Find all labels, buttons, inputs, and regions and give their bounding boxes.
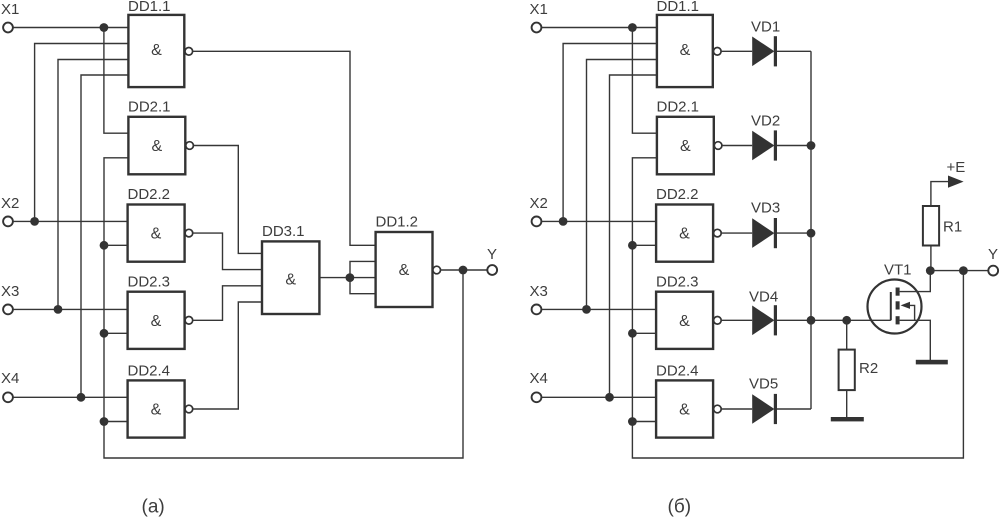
- wire X3 up to DD1.1 input 3: [58, 60, 128, 310]
- junction feedback at DD2.2 input 2: [100, 241, 109, 250]
- NAND gate DD1.1: [128, 15, 184, 87]
- NAND gate DD2.4: [128, 380, 185, 437]
- wire DD2.4 output to diode VD5: [721, 408, 752, 410]
- svg-text:VD3: VD3: [751, 200, 780, 217]
- output bubble DD2.2 right: [714, 229, 722, 237]
- wire DD1.2 output to terminal Y: [441, 269, 488, 271]
- wire stub DD2.2 input 2: [104, 244, 128, 246]
- svg-text:DD2.1: DD2.1: [657, 99, 700, 116]
- terminal X2 right: [532, 217, 542, 227]
- resistor R1: [923, 206, 939, 246]
- wire R2 to ground: [846, 390, 848, 417]
- wire output node to terminal Y right: [930, 270, 988, 272]
- wire X2 to DD2.2 input 1: [13, 220, 127, 222]
- wire X4 to DD2.4 input 1 right: [542, 396, 656, 398]
- output bubble DD2.3: [185, 317, 193, 325]
- output bubble DD2.4 right: [714, 405, 722, 413]
- junction feedback at DD2.3 input 2: [100, 329, 109, 338]
- svg-text:&: &: [399, 262, 410, 279]
- wire X2 up to DD1.1 input 2: [35, 44, 129, 222]
- wire DD1.1 output to diode VD1: [721, 50, 752, 52]
- junction X2 node right: [559, 217, 568, 226]
- junction bus at VD4: [807, 316, 816, 325]
- junction feedback at DD2.3 input 2 right: [628, 329, 637, 338]
- NAND gate DD2.2 right: [656, 205, 713, 262]
- NAND gate DD2.4 right: [656, 380, 713, 437]
- svg-text:DD2.3: DD2.3: [656, 274, 699, 291]
- terminal X4: [3, 392, 13, 402]
- wire X1 to DD1.1 input 1: [13, 27, 128, 29]
- terminal X3 right: [532, 305, 542, 315]
- output bubble DD2.1 right: [714, 142, 722, 150]
- wire R1 to +E arrow: [931, 182, 949, 206]
- svg-text:&: &: [151, 402, 162, 419]
- wire stub DD2.2 input 2 right: [632, 244, 656, 246]
- wire DD2.1 output to DD3.1 input 1: [193, 146, 262, 254]
- terminal X1 right: [532, 23, 542, 33]
- terminal Y: [487, 265, 497, 275]
- output bubble DD1.1 right: [714, 48, 722, 56]
- svg-text:X4: X4: [1, 370, 19, 387]
- junction R2 gate node: [842, 316, 851, 325]
- svg-text:&: &: [680, 138, 691, 155]
- wire X4 up to DD1.1 input 4 right: [610, 75, 657, 397]
- wire diode VD2 to bus: [777, 145, 811, 147]
- diode VD3: [752, 218, 777, 248]
- svg-text:DD2.3: DD2.3: [128, 274, 171, 291]
- wire diode VD4 to bus and gate of VT1: [777, 319, 891, 321]
- terminal X4 right: [532, 392, 542, 402]
- wire X4 to DD2.4 input 1: [13, 396, 127, 398]
- wire stub DD2.3 input 2: [104, 332, 128, 334]
- svg-text:&: &: [151, 42, 162, 59]
- wire gate node down to R2: [846, 320, 848, 349]
- junction feedback at Y right: [959, 266, 968, 275]
- terminal Y right: [988, 266, 998, 276]
- output bubble DD2.2: [185, 229, 193, 237]
- resistor R2: [839, 350, 855, 391]
- wire X1 down to DD2.1 input 1: [104, 28, 128, 134]
- transistor VT1 (MOSFET): [868, 271, 931, 360]
- svg-text:DD2.2: DD2.2: [128, 186, 171, 203]
- power arrow +E: [948, 176, 964, 188]
- junction X2 node: [30, 217, 39, 226]
- svg-text:X4: X4: [530, 370, 548, 387]
- junction X3 node: [54, 305, 63, 314]
- wire X2 up to DD1.1 input 2 right: [563, 44, 657, 222]
- svg-text:&: &: [679, 313, 690, 330]
- output bubble DD1.2: [433, 266, 441, 274]
- AND gate DD3.1: [262, 241, 319, 314]
- svg-text:&: &: [680, 42, 691, 59]
- svg-text:DD2.2: DD2.2: [656, 186, 699, 203]
- junction DD3.1 output node: [346, 273, 355, 282]
- wire DD2.1 output to diode VD2: [722, 145, 752, 147]
- svg-text:DD3.1: DD3.1: [262, 223, 305, 240]
- svg-text:DD2.4: DD2.4: [128, 363, 171, 380]
- svg-text:Y: Y: [988, 246, 998, 263]
- svg-text:DD2.4: DD2.4: [656, 363, 699, 380]
- NAND gate DD2.1 right: [657, 117, 714, 175]
- wire X4 up to DD1.1 input 4: [81, 75, 128, 397]
- junction X3 node right: [582, 305, 591, 314]
- svg-text:VD5: VD5: [749, 376, 778, 393]
- junction Y node: [459, 266, 468, 275]
- wire feedback Y to DD2.1 input 2 and down the column right: [632, 158, 963, 458]
- svg-text:X3: X3: [1, 283, 19, 300]
- diode VD5: [752, 394, 777, 424]
- output bubble DD2.1: [186, 142, 194, 150]
- wire drain node to R1: [930, 246, 932, 271]
- NAND gate DD1.1 right: [657, 15, 713, 87]
- junction feedback at DD2.2 input 2 right: [628, 241, 637, 250]
- junction X1 node: [100, 23, 109, 32]
- svg-text:(б): (б): [668, 497, 692, 517]
- wire DD2.3 output to DD3.1 input 3: [193, 286, 262, 321]
- wire DD2.3 output to diode VD4: [721, 319, 752, 321]
- NAND gate DD2.2: [128, 205, 185, 262]
- junction X4 node: [77, 393, 86, 402]
- junction X1 node right: [628, 23, 637, 32]
- svg-text:R2: R2: [859, 360, 878, 377]
- NAND gate DD2.1: [128, 117, 185, 175]
- svg-text:&: &: [679, 402, 690, 419]
- wire X3 up to DD1.1 input 3 right: [587, 60, 657, 310]
- wire DD2.2 output to DD3.1 input 2: [193, 233, 262, 270]
- wire diode bus vertical: [810, 51, 812, 409]
- svg-text:DD2.1: DD2.1: [128, 99, 171, 116]
- wire DD1.1 output to DD1.2 input 1: [193, 51, 376, 245]
- diode VD4: [752, 305, 777, 335]
- svg-text:&: &: [679, 226, 690, 243]
- wire stub DD2.3 input 2 right: [632, 332, 656, 334]
- wire X1 down to DD2.1 input 1 right: [632, 28, 657, 134]
- wire X3 to DD2.3 input 1 right: [542, 308, 656, 310]
- output bubble DD2.4: [185, 405, 193, 413]
- svg-text:Y: Y: [487, 246, 497, 263]
- NAND gate DD2.3: [128, 292, 185, 349]
- svg-text:X2: X2: [1, 195, 19, 212]
- svg-text:(а): (а): [142, 497, 165, 517]
- svg-text:VD1: VD1: [751, 19, 780, 36]
- wire DD2.2 output to diode VD3: [721, 232, 752, 234]
- svg-text:VT1: VT1: [884, 262, 912, 279]
- terminal X1: [3, 23, 13, 33]
- wire bracket tying DD1.2 inputs 2 and 4: [350, 261, 376, 293]
- svg-text:X3: X3: [530, 283, 548, 300]
- svg-text:R1: R1: [943, 219, 962, 236]
- svg-text:X2: X2: [530, 195, 548, 212]
- NAND gate DD2.3 right: [656, 292, 713, 349]
- svg-text:DD1.2: DD1.2: [376, 214, 419, 231]
- wire diode VD1 to bus: [777, 50, 811, 52]
- junction drain node: [926, 266, 935, 275]
- svg-text:DD1.1: DD1.1: [657, 0, 700, 15]
- wire stub DD2.4 input 2 right: [632, 421, 656, 423]
- junction bus at VD2: [807, 141, 816, 150]
- NAND gate DD1.2: [376, 232, 433, 307]
- wire X3 to DD2.3 input 1: [13, 308, 127, 310]
- junction bus at VD3: [807, 229, 816, 238]
- wire DD3.1 output to DD1.2 input 3: [319, 277, 375, 279]
- wire diode VD5 to bus: [777, 408, 811, 410]
- wire stub DD2.4 input 2: [104, 421, 128, 423]
- svg-text:&: &: [151, 226, 162, 243]
- wire X1 to DD1.1 input 1 right: [542, 27, 657, 29]
- svg-text:DD1.1: DD1.1: [128, 0, 171, 15]
- ground below R2: [831, 417, 864, 421]
- svg-text:X1: X1: [1, 1, 19, 18]
- svg-text:+E: +E: [947, 159, 966, 176]
- svg-text:X1: X1: [530, 1, 548, 18]
- svg-text:VD4: VD4: [749, 289, 778, 306]
- wire diode VD3 to bus: [777, 232, 811, 234]
- svg-text:&: &: [285, 272, 296, 289]
- svg-text:&: &: [151, 138, 162, 155]
- wire feedback Y to DD2.1 input 2 and down the column: [104, 158, 463, 458]
- output bubble DD1.1: [185, 48, 193, 56]
- ground below VT1 source: [916, 360, 948, 365]
- svg-text:&: &: [151, 313, 162, 330]
- svg-text:VD2: VD2: [751, 113, 780, 130]
- wire X2 to DD2.2 input 1 right: [542, 220, 656, 222]
- terminal X3: [3, 305, 13, 315]
- terminal X2: [3, 217, 13, 227]
- diode VD2: [752, 130, 777, 160]
- output bubble DD2.3 right: [714, 317, 722, 325]
- wire DD2.4 output to DD3.1 input 4: [193, 302, 262, 409]
- diode VD1: [752, 36, 777, 66]
- junction X4 node right: [605, 393, 614, 402]
- junction feedback at DD2.4 input 2 right: [628, 417, 637, 426]
- junction feedback at DD2.4 input 2: [100, 417, 109, 426]
